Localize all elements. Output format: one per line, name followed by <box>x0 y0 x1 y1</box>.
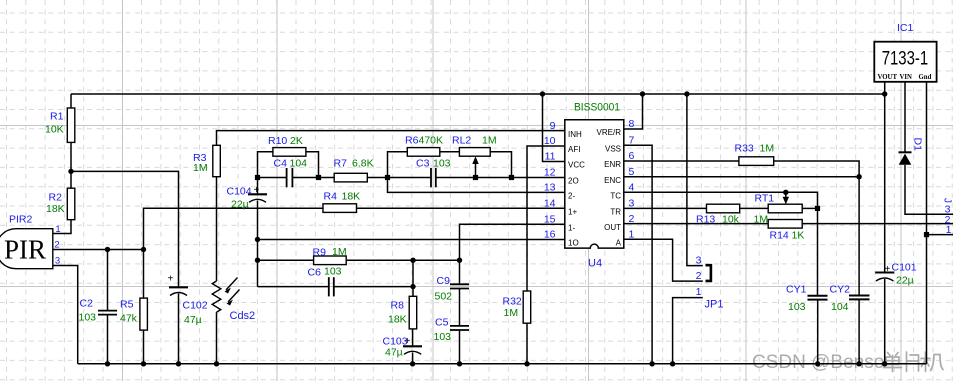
node gnd junction <box>141 361 146 366</box>
wire R9 row <box>258 259 314 261</box>
node C104-R9 junction <box>255 258 260 263</box>
node gnd junction <box>176 361 181 366</box>
svg-text:R32: R32 <box>503 296 522 308</box>
svg-text:C5: C5 <box>435 317 449 329</box>
wire TR pin3 <box>624 207 707 209</box>
node pin8 bus junction <box>640 91 645 96</box>
svg-text:22µ: 22µ <box>231 199 249 211</box>
wire R8 top <box>412 260 414 296</box>
node C junction <box>385 175 390 180</box>
resistor R5 <box>143 250 145 299</box>
svg-text:1: 1 <box>55 224 60 235</box>
resistor R2 <box>67 188 75 220</box>
svg-text:47k: 47k <box>120 313 138 325</box>
svg-text:2K: 2K <box>290 135 303 147</box>
regulator IC1 body <box>874 42 936 82</box>
svg-text:6.8K: 6.8K <box>352 158 374 170</box>
wire ENR pin6 <box>624 160 739 162</box>
svg-text:10: 10 <box>544 135 556 147</box>
capacitor C2 <box>107 250 109 311</box>
wire 1O pin16 <box>258 239 565 241</box>
svg-text:1: 1 <box>696 286 702 298</box>
node RL2 wiper junction <box>473 175 478 180</box>
svg-text:VRE/R: VRE/R <box>597 128 622 137</box>
svg-text:AFI: AFI <box>568 145 580 154</box>
resistor R10 <box>273 148 306 157</box>
svg-text:10k: 10k <box>722 214 740 226</box>
wire divider to C102 <box>71 171 179 287</box>
wire VCC bus <box>71 93 885 95</box>
wire CY1 vert <box>817 208 819 295</box>
node pin2-R5 junction <box>141 247 146 252</box>
node gnd junction <box>105 361 110 366</box>
svg-text:C101: C101 <box>892 262 917 274</box>
wire RT1 right stub <box>802 207 817 209</box>
svg-text:103: 103 <box>434 331 452 343</box>
capacitor C102 <box>169 286 188 288</box>
svg-text:C2: C2 <box>80 298 94 310</box>
svg-text:C104: C104 <box>227 186 252 198</box>
svg-text:BISS0001: BISS0001 <box>574 102 620 114</box>
svg-text:R2: R2 <box>49 192 63 204</box>
svg-text:ENR: ENR <box>604 160 621 169</box>
svg-text:+: + <box>254 185 260 196</box>
node RT1 wiper junction <box>783 190 788 195</box>
wire R1-R2 <box>70 142 72 188</box>
svg-text:VSS: VSS <box>605 145 621 154</box>
node C104-1O junction <box>255 237 260 242</box>
svg-text:U4: U4 <box>588 258 602 270</box>
svg-text:14: 14 <box>544 197 556 209</box>
node R9-C9 junction <box>457 258 462 263</box>
svg-text:1O: 1O <box>568 239 579 248</box>
node Gnd-edge junction <box>924 232 929 237</box>
svg-text:J: J <box>942 198 953 203</box>
svg-text:502: 502 <box>435 291 453 303</box>
svg-text:1K: 1K <box>792 230 805 242</box>
node gnd junction <box>457 361 462 366</box>
wire edge pin1 <box>927 234 953 236</box>
wire nodeA down <box>257 178 259 195</box>
svg-text:VCC: VCC <box>568 161 585 170</box>
svg-text:PIR2: PIR2 <box>9 214 33 226</box>
svg-text:VOUT: VOUT <box>878 74 898 81</box>
svg-text:47µ: 47µ <box>184 314 202 326</box>
wire R10 branch <box>258 152 273 178</box>
potentiometer RL2 <box>459 148 490 157</box>
wire JP1 pin1 <box>673 298 703 364</box>
wire 2- pin13 <box>388 178 565 193</box>
wire C101 gnd <box>884 279 886 364</box>
node R9-R8 junction <box>410 258 415 263</box>
svg-text:22µ: 22µ <box>896 275 914 287</box>
node gnd junction <box>649 361 654 366</box>
svg-text:1M: 1M <box>760 143 775 155</box>
svg-text:R7: R7 <box>334 158 348 170</box>
svg-text:1-: 1- <box>568 223 575 232</box>
node gnd junction <box>524 361 529 366</box>
svg-text:R9: R9 <box>313 247 327 259</box>
svg-text:CY1: CY1 <box>786 284 807 296</box>
wire INH pin9 <box>217 131 565 146</box>
svg-text:RT1: RT1 <box>755 193 775 205</box>
wire C6 row <box>258 286 329 288</box>
node VCC bus junction <box>540 91 545 96</box>
svg-text:1M: 1M <box>754 214 769 226</box>
resistor R4 <box>323 204 357 213</box>
capacitor C5 <box>450 325 469 327</box>
node TC-RT1 junction <box>815 206 820 211</box>
wire ENC pin5 <box>624 176 859 178</box>
svg-text:10K: 10K <box>45 124 64 136</box>
connector JP1 bracket <box>706 265 711 281</box>
svg-text:12: 12 <box>544 167 556 179</box>
svg-text:R14: R14 <box>770 230 789 242</box>
capacitor C9 <box>450 283 469 285</box>
wire C103 gnd <box>412 353 414 364</box>
svg-text:R13: R13 <box>696 214 715 226</box>
svg-text:R8: R8 <box>391 300 405 312</box>
svg-text:JP1: JP1 <box>705 299 724 311</box>
wire VOUT <box>884 82 886 272</box>
resistor R1 <box>67 108 75 142</box>
svg-text:103: 103 <box>433 158 451 170</box>
svg-text:+: + <box>885 264 891 275</box>
svg-text:18K: 18K <box>46 203 65 215</box>
wire VRE/R pin8 <box>624 94 643 129</box>
resistor R32 <box>523 291 531 323</box>
svg-text:PIR: PIR <box>4 235 46 265</box>
node gnd junction <box>410 361 415 366</box>
resistor R14 <box>768 220 802 229</box>
wire PIR pin2 <box>53 249 144 251</box>
svg-text:Cds2: Cds2 <box>230 310 256 322</box>
wire VSS pin7 <box>624 145 652 363</box>
svg-text:9: 9 <box>550 120 556 132</box>
diode D1 <box>899 151 912 153</box>
svg-text:103: 103 <box>79 312 97 324</box>
resistor R13 <box>707 204 740 213</box>
svg-text:2: 2 <box>54 240 59 251</box>
node gnd junction <box>214 361 219 366</box>
svg-text:Gnd: Gnd <box>919 74 932 81</box>
svg-text:16: 16 <box>544 229 556 241</box>
svg-text:18K: 18K <box>342 191 361 203</box>
wire R6 rail <box>388 152 408 178</box>
wire main 2O line <box>258 177 287 179</box>
svg-text:C3: C3 <box>416 158 430 170</box>
svg-text:3: 3 <box>55 256 60 267</box>
wire JP1 pin3 <box>687 94 703 266</box>
capacitor C6 <box>328 277 330 296</box>
svg-text:1M: 1M <box>332 246 347 258</box>
wire AFI pin10 <box>527 146 565 291</box>
svg-text:1M: 1M <box>482 135 497 147</box>
svg-text:R4: R4 <box>324 191 338 203</box>
node RL2 right junction <box>509 175 514 180</box>
wire R3-Cds2 <box>216 177 218 281</box>
wire R8-C103 <box>412 329 414 346</box>
svg-text:2: 2 <box>696 270 702 282</box>
svg-text:1+: 1+ <box>568 207 577 216</box>
svg-text:C6: C6 <box>308 267 322 279</box>
svg-text:D1: D1 <box>912 138 924 152</box>
svg-text:104: 104 <box>831 301 849 313</box>
svg-text:INH: INH <box>568 130 582 139</box>
svg-text:47µ: 47µ <box>385 347 403 359</box>
capacitor CY1 <box>808 295 828 297</box>
svg-text:1M: 1M <box>504 307 519 319</box>
svg-text:11: 11 <box>545 151 556 163</box>
svg-text:3: 3 <box>696 255 702 267</box>
resistor R7 <box>334 173 367 182</box>
svg-text:103: 103 <box>324 266 342 278</box>
svg-text:VIN: VIN <box>900 74 913 81</box>
resistor R6 <box>407 148 440 157</box>
svg-text:R1: R1 <box>50 111 64 123</box>
wire C102 to gnd <box>178 294 180 364</box>
wire R32 gnd <box>526 323 528 364</box>
node R1/R2 junction <box>68 169 73 174</box>
svg-text:C102: C102 <box>183 300 208 312</box>
svg-text:TR: TR <box>610 208 621 217</box>
svg-text:+: + <box>168 274 174 285</box>
wire C104 down <box>257 201 259 287</box>
svg-text:104: 104 <box>290 158 308 170</box>
wire A pin1 <box>624 239 703 281</box>
wire GND bus <box>78 363 927 365</box>
node B junction <box>316 175 321 180</box>
node A junction <box>255 175 260 180</box>
svg-text:1M: 1M <box>193 162 208 174</box>
svg-text:IC1: IC1 <box>897 22 914 34</box>
wire PIR pin3 <box>53 266 78 364</box>
capacitor CY2 <box>849 295 870 297</box>
node gnd junction <box>882 361 887 366</box>
wire R2 to PIR pin1 <box>53 220 71 234</box>
svg-text:7133-1: 7133-1 <box>882 48 929 69</box>
wire R33 right <box>774 161 859 295</box>
wire OUT pin2 <box>624 223 768 225</box>
svg-text:ENC: ENC <box>604 176 621 185</box>
wire C9-C5 <box>459 289 461 326</box>
capacitor C101 <box>875 271 894 273</box>
resistor R8 <box>409 296 417 329</box>
node pin2-C2 junction <box>105 247 110 252</box>
capacitor C103 <box>403 345 422 347</box>
capacitor C3 <box>430 168 432 187</box>
op-amp U4 BISS0001 body <box>565 120 624 248</box>
svg-text:A: A <box>616 238 622 247</box>
capacitor C104 <box>248 193 267 195</box>
svg-text:470K: 470K <box>419 135 444 147</box>
svg-text:2O: 2O <box>568 177 579 186</box>
svg-text:RL2: RL2 <box>452 135 471 147</box>
connector PIR2 <box>0 229 53 269</box>
node gnd junction <box>856 361 861 366</box>
node ENC junction <box>856 174 861 179</box>
resistor R9 <box>314 256 347 265</box>
svg-text:15: 15 <box>544 213 556 225</box>
node C6-R8 junction <box>410 284 415 289</box>
photoresistor Cds2 <box>212 281 221 312</box>
svg-text:2-: 2- <box>568 192 575 201</box>
potentiometer RT1 <box>768 204 802 213</box>
node JP1 bus junction <box>684 91 689 96</box>
resistor R33 <box>739 157 774 166</box>
svg-text:103: 103 <box>788 301 806 313</box>
wire C9 top <box>459 260 461 284</box>
wire 1+ row <box>144 208 324 249</box>
node gnd junction <box>670 361 675 366</box>
svg-text:C9: C9 <box>437 275 451 287</box>
svg-text:OUT: OUT <box>604 223 621 232</box>
svg-text:18K: 18K <box>388 314 407 326</box>
wire TC pin4 <box>624 192 818 208</box>
wire 1- pin15 <box>460 224 565 260</box>
wire C5 gnd <box>459 330 461 364</box>
wire VIN <box>904 82 906 153</box>
svg-text:R10: R10 <box>268 135 287 147</box>
wire Gnd <box>926 82 928 364</box>
wire D1 to edge pin3 <box>905 165 953 215</box>
svg-text:R5: R5 <box>120 299 134 311</box>
svg-text:TC: TC <box>610 192 621 201</box>
svg-text:R33: R33 <box>735 143 754 155</box>
svg-text:C4: C4 <box>274 158 288 170</box>
node gnd junction <box>815 361 820 366</box>
wire VCC pin11 <box>543 94 565 162</box>
resistor R3 <box>213 145 221 176</box>
svg-text:13: 13 <box>544 182 556 194</box>
svg-text:CY2: CY2 <box>830 284 851 296</box>
node VOUT bus junction <box>882 91 887 96</box>
node VCC-R1 corner <box>70 94 72 108</box>
capacitor C4 <box>286 168 288 187</box>
svg-text:R6: R6 <box>405 135 419 147</box>
svg-text:1: 1 <box>946 224 952 236</box>
